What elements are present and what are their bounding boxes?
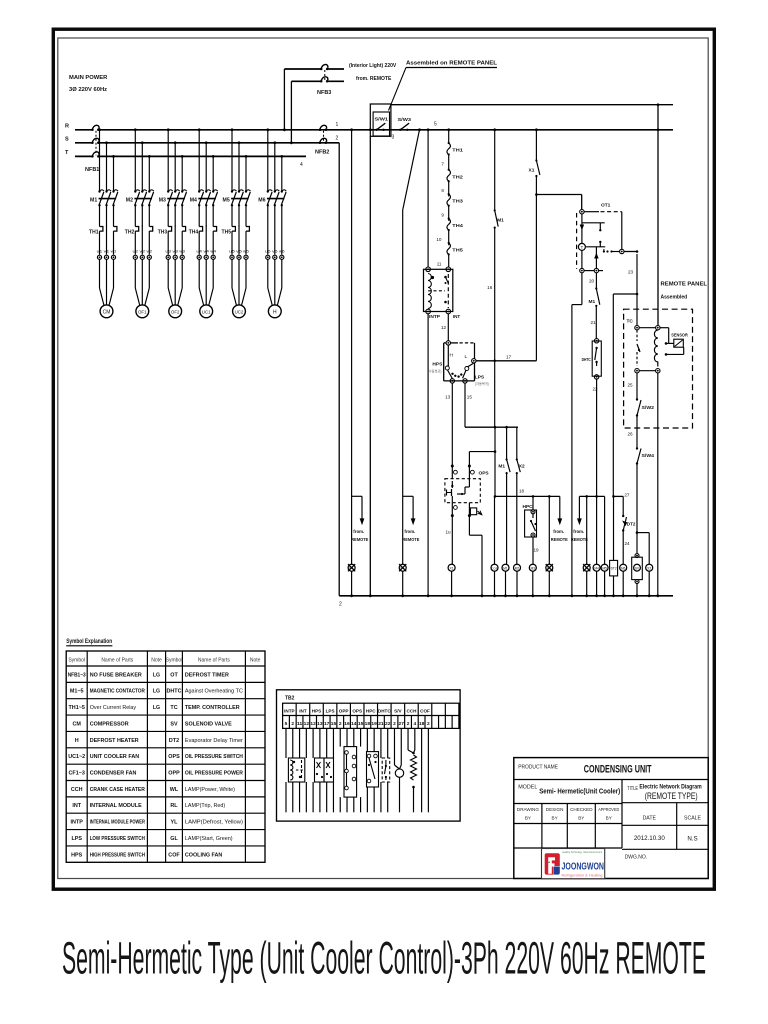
svg-text:2: 2 [291, 721, 294, 727]
junction dots group M3 [167, 128, 170, 131]
wires to overload group M3 [167, 205, 169, 226]
svg-text:OPS: OPS [168, 754, 180, 760]
timer coil DT2 [610, 560, 618, 576]
wire DT2 to M6 coil [622, 531, 624, 565]
svg-text:M1: M1 [589, 299, 596, 305]
svg-text:INT: INT [72, 803, 81, 809]
wire left enclosure drop [369, 136, 371, 596]
svg-text:from.: from. [353, 529, 364, 534]
svg-text:GL: GL [170, 836, 178, 842]
annotation from remote WL [352, 495, 362, 497]
wire drops group M6 [267, 130, 269, 191]
svg-text:(자동복귀): (자동복귀) [475, 381, 489, 386]
svg-text:COF: COF [420, 708, 430, 713]
svg-text:w4: w4 [210, 249, 216, 254]
svg-text:DHTC: DHTC [582, 357, 591, 362]
svg-text:8: 8 [441, 188, 444, 193]
svg-text:1: 1 [336, 122, 339, 128]
svg-text:(Interior Light) 220V: (Interior Light) 220V [349, 63, 397, 69]
svg-text:DEFROST TIMER: DEFROST TIMER [185, 672, 229, 678]
junction dots group M4 [198, 128, 201, 131]
svg-text:M4: M4 [594, 566, 599, 570]
wire drops group M3 [167, 130, 169, 191]
wire R bus [75, 129, 92, 131]
wire OT1 motor return [581, 273, 583, 305]
TB2 wires INTP/INT [285, 728, 287, 758]
contact TH3 [448, 193, 450, 195]
svg-text:21: 21 [378, 721, 384, 727]
lamp GL [546, 564, 553, 571]
annotation from remote arrow B [578, 496, 580, 519]
svg-text:X2: X2 [647, 566, 651, 570]
svg-text:CM: CM [73, 721, 82, 727]
svg-text:3: 3 [392, 135, 395, 141]
lamp YL [583, 564, 590, 571]
signoff columns [541, 804, 543, 849]
leader line to S/W1 [389, 68, 407, 111]
TB2 wires DHTC [380, 728, 382, 758]
terminals group M6 [266, 255, 270, 259]
wire node5 drop right [657, 103, 660, 106]
wires to motor CM [99, 259, 101, 288]
svg-text:DATE: DATE [643, 816, 657, 822]
wires to terminals group M1 [99, 236, 101, 255]
svg-text:19: 19 [534, 548, 540, 553]
svg-text:15: 15 [331, 721, 337, 727]
annotation from remote RL [403, 495, 413, 497]
overload relay TH5 [232, 227, 235, 232]
TB2 pressure switch symbols [315, 758, 325, 782]
svg-text:RL: RL [170, 803, 178, 809]
remote panel dashed box [624, 309, 693, 428]
svg-text:OPP: OPP [168, 771, 180, 777]
svg-text:NFB3: NFB3 [317, 90, 331, 96]
svg-text:TH2: TH2 [452, 174, 463, 179]
svg-text:DESIGN: DESIGN [546, 807, 564, 812]
thermostat DHTC [592, 341, 601, 376]
product name row [514, 779, 708, 781]
contact M1 defrost [595, 287, 597, 289]
contact M1 aux [506, 458, 508, 460]
svg-text:M6: M6 [621, 566, 626, 570]
wire TC coil return [657, 373, 659, 596]
wire bus to INTP [427, 128, 430, 131]
svg-text:COOLING FAN: COOLING FAN [185, 852, 223, 858]
wire bus to M1 aux contact [493, 128, 496, 131]
svg-text:Name of Parts: Name of Parts [101, 657, 133, 663]
contact M1 holding [494, 209, 496, 211]
svg-text:Assembled: Assembled [661, 295, 688, 301]
lamp GL column [548, 496, 550, 564]
motor UC2 [233, 305, 246, 318]
coil M4 [593, 564, 600, 571]
contactor M1 [98, 190, 100, 192]
svg-text:S/W4: S/W4 [642, 453, 655, 458]
wire line 2 drop [338, 143, 340, 596]
wire NFB3 to R line [283, 69, 285, 130]
coil M6 [620, 564, 627, 571]
svg-text:M5: M5 [223, 198, 230, 204]
wire drops group M1 [99, 130, 101, 191]
svg-text:NFB1~3: NFB1~3 [68, 672, 86, 678]
svg-text:22: 22 [385, 721, 391, 727]
breaker NFB3 [284, 68, 321, 70]
svg-text:LPS: LPS [71, 836, 82, 842]
coil M2 [514, 564, 521, 571]
wire 16 down [494, 228, 496, 428]
wires to motor UC2 [231, 259, 233, 288]
svg-text:12: 12 [441, 325, 447, 330]
switch S/W3 [399, 129, 401, 131]
wire remote top line [391, 104, 673, 106]
contact X1 [535, 159, 537, 161]
svg-text:11: 11 [437, 261, 442, 266]
svg-text:S/W3: S/W3 [398, 117, 412, 122]
wire OPS left to X1 coil [451, 516, 453, 565]
svg-text:HPS: HPS [432, 362, 443, 368]
svg-text:X1: X1 [529, 168, 535, 174]
date scale cells [676, 803, 678, 850]
svg-text:M4: M4 [190, 198, 197, 204]
svg-text:H: H [450, 353, 454, 359]
wire TH5 to INT [448, 254, 450, 267]
svg-text:WL: WL [349, 566, 354, 570]
svg-text:TH3: TH3 [158, 230, 168, 236]
svg-text:HPS: HPS [71, 852, 82, 858]
svg-text:w3: w3 [179, 249, 185, 254]
svg-text:from.: from. [573, 529, 584, 534]
svg-text:13: 13 [317, 721, 323, 727]
coil COF [491, 564, 498, 571]
svg-text:u3: u3 [165, 249, 172, 254]
svg-text:MAGNETIC CONTACTOR: MAGNETIC CONTACTOR [90, 689, 145, 695]
svg-text:BY: BY [578, 816, 584, 821]
svg-text:M1: M1 [503, 566, 508, 570]
TB2 wires OPP/OPS [339, 728, 341, 746]
svg-text:UC1~2: UC1~2 [68, 754, 85, 760]
junction dots group M1 [98, 128, 101, 131]
svg-text:TH1~5: TH1~5 [69, 705, 85, 711]
wire 495 to rail496 [494, 427, 496, 496]
svg-text:1u: 1u [446, 530, 452, 535]
svg-text:INTP: INTP [429, 314, 440, 319]
contact TH4 [448, 217, 450, 219]
contact X2 [516, 458, 518, 460]
svg-text:LAMP(Trip, Red): LAMP(Trip, Red) [185, 803, 225, 809]
contact TH5 [448, 242, 450, 244]
svg-text:DEFROST HEATER: DEFROST HEATER [90, 738, 139, 744]
svg-text:MAIN POWER: MAIN POWER [69, 75, 108, 81]
svg-text:CCH: CCH [406, 708, 417, 713]
wire INTP return [427, 314, 429, 596]
svg-text:13: 13 [445, 395, 451, 400]
wire NFB3 to S line [290, 81, 292, 143]
svg-text:22: 22 [593, 387, 599, 392]
wire branch to DT2 column [636, 293, 639, 296]
svg-text:WL: WL [170, 787, 179, 793]
svg-text:TH4: TH4 [452, 223, 463, 228]
svg-text:PRODUCT NAME: PRODUCT NAME [518, 764, 558, 770]
svg-text:HPS: HPS [312, 708, 321, 713]
wire LPS-15 down to rail [464, 383, 466, 427]
svg-text:H: H [75, 738, 79, 744]
svg-text:TB2: TB2 [285, 696, 295, 702]
svg-text:REMOTE: REMOTE [402, 537, 419, 542]
svg-text:T: T [581, 245, 584, 250]
svg-text:GL: GL [547, 566, 552, 570]
wire diagonal to RL [418, 128, 421, 131]
contactor M5 [231, 190, 233, 192]
terminals group M1 [97, 255, 101, 259]
wire bus to X1 contact [535, 128, 538, 131]
svg-text:11: 11 [297, 721, 303, 727]
svg-text:NO FUSE BREAKER: NO FUSE BREAKER [90, 672, 142, 678]
terminals group M2 [133, 255, 137, 259]
svg-text:u1: u1 [97, 249, 104, 254]
svg-text:OIL PRESSURE SWITCH: OIL PRESSURE SWITCH [185, 754, 243, 760]
wire HPS-13 down to OPS [451, 383, 453, 465]
svg-text:BY: BY [552, 816, 558, 821]
svg-text:S/V: S/V [394, 708, 402, 713]
svg-text:18: 18 [519, 489, 525, 494]
svg-text:CONDENSING UNIT: CONDENSING UNIT [584, 764, 652, 776]
svg-text:20: 20 [589, 279, 595, 284]
terminals group M5 [230, 255, 234, 259]
svg-text:TC: TC [627, 319, 634, 325]
TB2 DHTC symbol [382, 758, 390, 782]
svg-text:OT1: OT1 [601, 203, 611, 209]
title block frame [514, 758, 708, 879]
svg-text:DHTC: DHTC [167, 689, 182, 695]
svg-text:w6: w6 [279, 249, 285, 254]
svg-text:10: 10 [436, 237, 442, 242]
svg-text:HPC: HPC [523, 504, 534, 510]
wire DHTC to M4 coil [596, 379, 598, 564]
svg-text:S/W2: S/W2 [642, 405, 655, 410]
svg-text:5: 5 [434, 122, 437, 128]
svg-text:12: 12 [310, 721, 316, 727]
TB2 HPC symbol [367, 752, 379, 787]
pressure switch block HPS/LPS [446, 341, 450, 345]
svg-text:CF1~3: CF1~3 [69, 771, 85, 777]
svg-text:from.: from. [553, 529, 564, 534]
svg-text:17: 17 [324, 721, 330, 727]
svg-text:SCALE: SCALE [684, 816, 702, 822]
wire M1 contact to coil M1 [506, 473, 508, 564]
wire TH chain segment [448, 181, 450, 196]
coil M5 [601, 564, 608, 571]
svg-text:M1: M1 [497, 218, 504, 224]
contact TH1 [448, 142, 450, 144]
contactor M3 [167, 190, 169, 192]
svg-text:CCH: CCH [71, 787, 83, 793]
bus junctions [350, 594, 353, 597]
svg-text:TITLE: TITLE [627, 786, 638, 792]
junction dots group M2 [134, 128, 137, 131]
svg-text:(REMOTE TYPE): (REMOTE TYPE) [645, 791, 698, 801]
junction dots group M5 [231, 128, 234, 131]
svg-text:TEMP. CONTROLLER: TEMP. CONTROLLER [185, 705, 240, 711]
svg-text:NFB1: NFB1 [85, 167, 99, 173]
svg-text:M3: M3 [531, 566, 536, 570]
svg-text:TC: TC [170, 705, 177, 711]
wire branch to timer OT1 [536, 194, 581, 196]
wire S/W2 to S/W4 [636, 416, 638, 448]
svg-text:UC2: UC2 [235, 310, 244, 315]
svg-text:2: 2 [339, 721, 342, 727]
wire INT to HPS [447, 314, 449, 341]
svg-text:REMOTE PANEL: REMOTE PANEL [661, 282, 708, 288]
wires to terminals group M2 [134, 236, 136, 255]
svg-text:12: 12 [304, 721, 310, 727]
svg-text:4: 4 [300, 162, 303, 168]
svg-text:NFB2: NFB2 [315, 150, 329, 156]
relay coil X2 [646, 564, 653, 571]
svg-text:LAMP(Start, Green): LAMP(Start, Green) [185, 836, 233, 842]
svg-text:REMOTE: REMOTE [351, 537, 368, 542]
wires to overload group M5 [231, 205, 233, 226]
wire TH chain segment [448, 230, 450, 245]
relay coil X1 [448, 564, 455, 571]
svg-text:OF1: OF1 [138, 310, 147, 315]
svg-text:DT2: DT2 [611, 567, 617, 571]
svg-text:LG: LG [153, 705, 160, 711]
TB2 wires HPS/LPS [312, 728, 314, 758]
wire M5 drop [604, 496, 606, 564]
svg-text:OT: OT [170, 672, 178, 678]
wire 23 column [636, 254, 638, 326]
svg-text:TH1: TH1 [452, 148, 463, 153]
model title row [514, 803, 622, 805]
svg-text:SV: SV [170, 721, 178, 727]
svg-text:Note: Note [151, 657, 162, 663]
svg-text:24: 24 [625, 541, 631, 546]
svg-text:Against Overheating TC: Against Overheating TC [185, 689, 243, 695]
contact TH2 [448, 169, 450, 171]
motor H [268, 305, 281, 318]
wire branch to X2 coil [637, 532, 649, 534]
contactor M4 [198, 190, 200, 192]
svg-text:Semi-Hermetic Type (Unit Coole: Semi-Hermetic Type (Unit Cooler Control)… [62, 933, 706, 984]
solenoid valve SV [632, 557, 643, 579]
svg-text:HPC: HPC [366, 708, 376, 713]
svg-text:Over Current Relay: Over Current Relay [90, 705, 137, 711]
TB2 wires COF [421, 728, 423, 812]
svg-text:TH4: TH4 [189, 230, 199, 236]
TB2 wires SV [393, 728, 395, 765]
oil pressure power OPP box [470, 508, 476, 515]
terminals group M4 [197, 255, 201, 259]
svg-text:DHTC: DHTC [378, 708, 391, 713]
wire DT2 coil drop [613, 496, 615, 560]
svg-text:14: 14 [351, 721, 357, 727]
svg-text:SOLENOID VALVE: SOLENOID VALVE [185, 721, 232, 727]
svg-text:S: S [65, 137, 69, 143]
wire bus to TH chain [447, 128, 450, 131]
svg-text:2: 2 [336, 136, 339, 142]
svg-text:23: 23 [628, 270, 634, 275]
svg-text:COF: COF [168, 852, 180, 858]
svg-text:TH5: TH5 [452, 248, 463, 253]
motor UC1 [200, 305, 213, 318]
breaker NFB1 [92, 125, 99, 130]
svg-text:LG: LG [153, 672, 160, 678]
svg-text:Leading Technology, Value Envi: Leading Technology, Value Environment [562, 850, 602, 854]
svg-text:2: 2 [393, 721, 396, 727]
svg-text:LOW PRESSURE SWITCH: LOW PRESSURE SWITCH [90, 836, 145, 842]
breaker NFB2 [320, 125, 327, 130]
motor OF1 [136, 305, 149, 318]
TB2 OPS symbol [344, 747, 357, 798]
wires to terminals group M4 [198, 236, 200, 255]
TB2 module INTP/INT symbol [288, 758, 304, 782]
svg-text:Evaporator Delay Timer: Evaporator Delay Timer [185, 738, 243, 744]
svg-text:OPS: OPS [352, 708, 362, 713]
rail 18 left [495, 495, 560, 497]
svg-text:LPS: LPS [475, 375, 485, 381]
wire drops group M5 [231, 130, 233, 191]
overload relay TH2 [135, 227, 138, 232]
overload relay TH1 [100, 227, 103, 232]
svg-text:CRANK CASE HEATER: CRANK CASE HEATER [90, 787, 145, 793]
wire OPS top elbow [469, 451, 495, 453]
svg-text:X1: X1 [450, 566, 454, 570]
svg-text:18: 18 [419, 721, 425, 727]
svg-text:15: 15 [358, 721, 364, 727]
annotation from remote arrow A [559, 496, 561, 519]
svg-text:9: 9 [441, 213, 444, 218]
svg-text:M2: M2 [126, 198, 133, 204]
svg-text:w5: w5 [243, 249, 249, 254]
svg-text:4: 4 [413, 721, 416, 727]
svg-text:M6: M6 [258, 198, 265, 204]
terminal block TB2 enclosure [277, 690, 461, 821]
svg-text:YL: YL [171, 820, 179, 826]
svg-text:CONDENSER FAN: CONDENSER FAN [90, 771, 137, 777]
wire drops group M4 [198, 130, 200, 191]
svg-text:OPP: OPP [339, 708, 349, 713]
svg-text:COF: COF [492, 566, 498, 570]
wire OPS right return [468, 516, 470, 536]
svg-text:Symbol: Symbol [166, 657, 183, 663]
wire S line [75, 142, 92, 144]
rail 427 [465, 426, 518, 428]
svg-text:16: 16 [487, 285, 493, 290]
svg-text:M3: M3 [159, 198, 166, 204]
svg-text:N.S: N.S [687, 835, 697, 842]
svg-text:S/W1: S/W1 [375, 117, 389, 122]
rail 18 right [579, 495, 604, 497]
svg-text:LAMP(Power, White): LAMP(Power, White) [185, 787, 235, 793]
svg-text:Note: Note [250, 657, 261, 663]
wire X1 to rail17 [535, 176, 537, 361]
wires to motor OF2 [167, 259, 169, 288]
contactor M2 [134, 190, 136, 192]
relay module INTP/INT [424, 269, 453, 311]
svg-text:15: 15 [467, 395, 473, 400]
wire DT2 contact drop [622, 496, 624, 515]
svg-text:Name of Parts: Name of Parts [198, 657, 230, 663]
wire TC to S/W2 [636, 373, 638, 399]
svg-text:Electric Network Diagram: Electric Network Diagram [639, 783, 702, 790]
switch S/W1 enclosure [370, 104, 391, 136]
svg-text:Semi- Hermetic(Unit Cooler): Semi- Hermetic(Unit Cooler) [539, 789, 620, 796]
wires below contactor M6 [267, 206, 269, 237]
svg-text:YL: YL [585, 566, 589, 570]
motor OF2 [169, 305, 182, 318]
svg-text:2: 2 [427, 721, 430, 727]
wires to motor OF1 [134, 259, 136, 288]
